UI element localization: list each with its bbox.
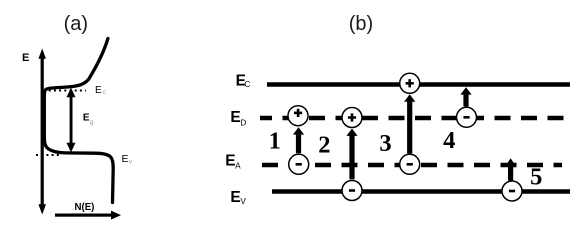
svg-text:3: 3 xyxy=(379,130,391,157)
svg-text:E: E xyxy=(225,153,235,170)
svg-text:4: 4 xyxy=(443,127,455,154)
transition 4 arrow xyxy=(460,87,471,106)
svg-text:5: 5 xyxy=(530,164,542,191)
transition 3 electron circle (-) at Ea xyxy=(400,154,420,174)
transition 4 electron circle (-) at Ed xyxy=(457,107,477,127)
transition 5 electron circle (-) at Ev xyxy=(502,181,522,201)
level Ec line xyxy=(267,82,570,87)
vertical axis E (double-headed) xyxy=(38,49,46,215)
Eg double arrow xyxy=(67,88,76,153)
density of states curve xyxy=(44,39,113,203)
svg-text:(a): (a) xyxy=(64,13,88,35)
transition 3 arrow xyxy=(404,94,415,153)
svg-text:V: V xyxy=(240,197,246,206)
transition 1 hole circle (+) at Ed xyxy=(288,106,308,126)
transition 5 arrow xyxy=(505,158,516,180)
svg-text:N(E): N(E) xyxy=(75,202,95,213)
transition 2 electron circle (-) at Ev xyxy=(342,181,362,201)
svg-text:1: 1 xyxy=(269,128,281,155)
svg-text:E: E xyxy=(22,52,29,64)
transition 1 electron circle (-) at Ea xyxy=(289,154,309,174)
horizontal axis N(E) xyxy=(55,211,121,220)
level Ea line (dashed) xyxy=(262,163,562,168)
svg-text:2: 2 xyxy=(318,131,330,158)
dotted conduction band edge Ec xyxy=(44,90,87,92)
svg-text:E: E xyxy=(230,109,240,126)
transition 3 hole circle (+) at Ec xyxy=(400,73,420,93)
transition 2 arrow xyxy=(346,129,357,180)
svg-text:A: A xyxy=(235,162,241,171)
svg-text:C: C xyxy=(244,80,250,89)
level Ed line (dashed) xyxy=(260,116,568,121)
transition 2 hole circle (+) at Ed xyxy=(342,108,362,128)
svg-text:E: E xyxy=(95,85,102,96)
svg-text:g: g xyxy=(90,119,94,126)
transition 1 arrow xyxy=(293,127,304,153)
level Ev line xyxy=(272,189,570,194)
svg-text:E: E xyxy=(230,189,240,206)
svg-text:(b): (b) xyxy=(349,13,373,35)
dotted valence band edge Ev xyxy=(36,154,60,156)
svg-text:D: D xyxy=(240,118,246,127)
svg-text:E: E xyxy=(122,153,129,165)
